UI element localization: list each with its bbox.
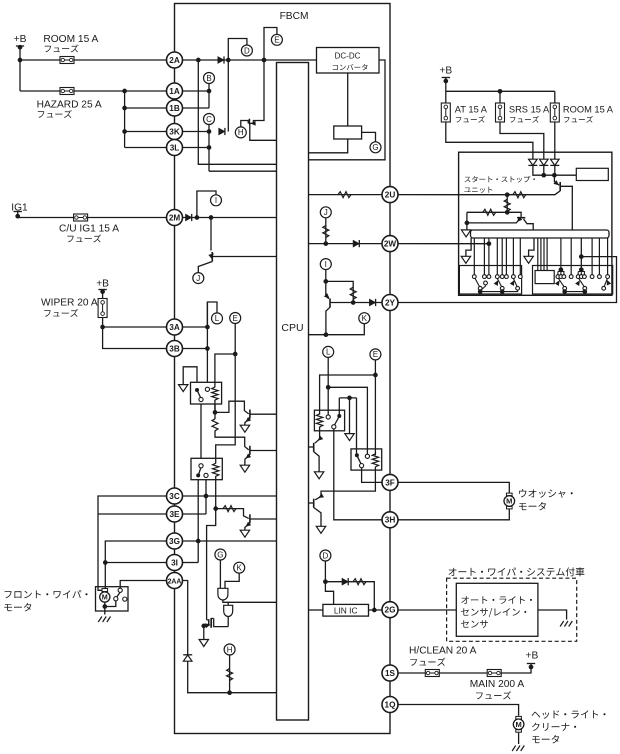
wire 3K diode to 2A bus riser [227,60,229,132]
wire label E chain to relay4 coil [374,360,376,455]
wire Q2 emitter to ground [245,455,250,466]
diode LIN branch [342,578,348,585]
ground triangle unit-mid [524,256,533,263]
relay2 box [191,458,222,479]
pin 2Y [382,295,398,311]
fuse WIPER 20A (vertical) [98,299,107,318]
svg-text:K: K [362,314,368,323]
CPU microprocessor box [277,63,309,721]
pin 3K [167,124,183,140]
auto light/rain sensor box [456,583,538,636]
wire 2M to CPU [183,217,277,219]
wire diode bus in unit [533,165,576,175]
node E (relay) [370,349,381,360]
node E [271,34,282,45]
right box switch levers [559,279,564,287]
svg-text:J: J [324,208,328,217]
svg-text:+B: +B [526,651,539,662]
diode after 2M [186,214,192,221]
wiper switch pivot contact [117,592,121,597]
wire label K to CPU [309,324,365,335]
ground hatch headlight motor [512,746,524,752]
label fuse jp (SRS) [510,116,539,123]
wire E branch to relay3 coil [320,375,376,415]
svg-text:CPU: CPU [281,322,303,334]
svg-text:2W: 2W [384,240,397,249]
wire T4 base from CPU [309,446,314,448]
unit pin riser with 2Y tap [580,238,582,270]
transistor Q3 bar [249,514,251,523]
wire C/3K/3L junction to CPU [209,170,277,172]
svg-text:+B: +B [14,34,27,45]
svg-text:3E: 3E [169,510,180,519]
label fuse jp (WIPER) [44,309,78,317]
svg-text:3L: 3L [170,143,180,152]
svg-text:3K: 3K [169,127,180,136]
left box common bus [480,290,517,291]
svg-text:2A: 2A [169,56,180,65]
wire 2M transistor collector [210,218,212,251]
relay2 armature pivot [196,473,200,477]
relay1 coil bottom to junction [214,400,216,419]
diode 2Y wire [369,299,375,306]
resistor to ground in unit [467,211,507,213]
wire 2Y transistor emitter down to K wire [326,307,330,334]
pin 3F [382,474,398,490]
wire Q1 emitter to ground [245,418,250,425]
node G [215,549,226,560]
relay3 box [314,410,344,431]
unit transistor U1 collector to connector bar [561,186,573,230]
pin 3L [167,140,183,156]
wire 2W into unit to pin [459,243,489,245]
wire label B to 1A/1B tie [208,73,210,108]
ground hatch wiper motor [98,617,110,623]
node E (3A) [230,313,241,324]
relay1 coil [214,382,216,387]
label headlight cleaner jp line1 [532,710,606,718]
FBCM body control module box [175,4,391,734]
wire H transistor collector to CPU [250,124,277,140]
fuse HAZARD 25A [60,88,74,95]
LIN IC box [323,604,369,616]
wire 3C internal [183,495,277,497]
+B terminal (MAIN) [527,663,535,665]
label front wiper motor jp line2 [4,603,31,611]
right box fan-out 2 [577,272,579,275]
label fuse jp (HAZARD) [38,110,72,118]
node G (DC-DC) [370,142,381,153]
wire 1Q to headlight cleaner motor [398,705,519,716]
wire label E (3A) down to relay coils [216,324,236,465]
wire label L chain to relay3 contact [327,357,329,417]
wire HAZARD feed to 1A [20,90,209,92]
transistor T5 bar [313,499,315,508]
resistor I-2Y branch [350,287,356,299]
pin 3G [167,533,183,549]
auto wiper system dashed box [447,578,577,641]
svg-text:3A: 3A [169,323,180,332]
node J (2M) [193,273,204,284]
wire DC-DC relay to CPU [309,139,348,153]
resistor below label J [323,226,329,238]
svg-text:G: G [372,143,378,152]
diode2 in unit [539,159,548,165]
wire MOSFET source to ground [203,626,205,640]
wire 2Y loop from unit right [398,257,617,303]
fuse AT 15A [441,103,450,122]
transistor pass element bar (H) [248,119,250,125]
label washer motor jp line2 [519,502,546,510]
wire T5 emitter to ground [314,508,321,527]
pin 1S [382,665,398,681]
relay3 armature lever [335,418,339,426]
relay4 fixed contact [365,454,369,458]
pin 3B [167,341,183,357]
wire to 3B [103,327,175,349]
wire 3B to relay 1 contact [183,348,208,350]
svg-text:SRS 15 A: SRS 15 A [509,104,550,114]
pin 3C [167,488,183,504]
wire 3G internal [183,540,277,542]
wire relay4 coil to T5 [315,467,375,500]
wire 3C to front wiper motor (left) [98,496,167,590]
svg-text:B: B [206,74,211,83]
svg-text:IG1: IG1 [11,203,28,214]
wire CPU to LIN IC [309,609,323,611]
wire Q3 collector to CPU [251,518,277,520]
front wiper motor M [102,589,108,592]
label fuse jp (H/CLEAN) [410,658,445,666]
wire relay3 coil to T4 [315,427,320,444]
wire 2Y transistor to 2Y with diode [331,302,382,304]
wire label K2 input to gate1 [225,573,239,588]
svg-text:+B: +B [439,66,452,77]
wire relay4 output to 3F [362,468,390,483]
wire label D down to LIN area [325,561,333,604]
relay1 ground hook [183,367,197,390]
wire LIN IC to 2G [369,609,391,611]
node L (3A) [212,313,223,324]
logic gate 2 [224,605,233,616]
svg-text:1S: 1S [385,669,396,678]
wire gate2 output to MOSFET [227,617,229,627]
wire motor to ground [104,606,106,615]
wire 3L [125,147,209,149]
wire E branch to relay1 coil [215,354,235,388]
relay3 armature end contact [332,425,336,429]
ground triangle relay commons [345,434,354,441]
wire 2AA internal to diode [183,581,188,655]
label sensor jp line2 [461,608,526,617]
svg-text:HAZARD 25 A: HAZARD 25 A [37,100,102,111]
wire 3E internal [183,513,207,515]
wiper switch contact 2 [114,597,118,601]
relay4 armature lever [358,457,362,464]
unit connector pins right group [538,238,608,275]
unit transistor U1 emitter [554,175,559,185]
wire H transistor feed from 2A bus [250,60,264,123]
svg-text:H: H [227,645,233,654]
svg-text:C: C [206,115,212,124]
diode on 3K wire [219,128,225,135]
wire 3K [125,131,209,133]
MOSFET output transistor [207,619,209,621]
diode1 in unit [528,159,537,165]
wire gate1 output to gate2 [223,600,228,605]
transistor T4 bar [313,443,315,452]
fuse H/CLEAN 20A [425,670,439,677]
relay1 armature output to relay2 contact [200,402,202,466]
node D [241,45,252,56]
wire ground branch relay commons [349,398,351,434]
svg-text:L: L [326,348,331,357]
ground triangle T4 [314,472,323,479]
svg-text:M: M [506,497,512,506]
node L [323,346,334,357]
wire wiper switch to ground bus [105,601,116,607]
svg-text:LIN IC: LIN IC [334,606,358,616]
unit transistor U2 base [507,212,521,217]
unit connector bar [471,230,610,238]
transistor Q2 bar [249,446,251,455]
wire gate chain to CPU [228,601,308,603]
right box contact circles [556,275,560,279]
label fuse jp (C/U IG1) [67,234,101,242]
transistor 2Y bar [329,299,331,308]
wire left bus 1A-3L [124,91,126,148]
resistor vertical in unit [506,195,508,213]
wire Q1 base path [215,401,249,414]
svg-text:ROOM 15 A: ROOM 15 A [563,104,614,114]
pin 3I [167,555,183,571]
diode on 2A wire [218,56,224,63]
resistor below label H [227,669,233,681]
unit ground hook mid [529,238,534,256]
svg-text:D: D [323,551,329,560]
relay2 coil [215,458,217,463]
ground triangle T5 [316,526,325,533]
wire 1S to +B with H/CLEAN and MAIN fuses [398,664,531,674]
wire IG1 to 2M with C/U IG1 fuse [18,217,175,218]
relay2 fixed contact [204,473,208,477]
relay2 armature lever [199,468,201,474]
relay1 fixed contact [205,387,209,391]
pin 2W [382,236,398,252]
svg-text:H/CLEAN 20 A: H/CLEAN 20 A [409,646,477,657]
node B [204,73,215,84]
pin 1Q [382,697,398,713]
node I (2M) [211,195,222,206]
svg-text:M: M [102,593,108,602]
label fuse jp (MAIN) [476,691,511,699]
node C [204,114,215,125]
ground hatch sensor [560,621,572,627]
svg-text:I: I [215,196,217,205]
wire Q1 collector to CPU [251,413,277,415]
right switch box in unit [533,266,613,295]
wire hook to label I [197,191,216,218]
relay4 armature end contact [360,464,364,468]
wire relay3 contact to 3H [334,429,390,520]
unit ground hook left [466,238,471,256]
label auto wiper system jp [449,567,585,576]
relay1 armature pivot [195,388,199,392]
transistor Q1 bar [249,410,251,419]
svg-text:E: E [274,36,279,45]
washer motor M [504,493,515,510]
svg-text:DC-DC: DC-DC [335,52,361,61]
headlight cleaner motor M [513,716,524,733]
wire sensor to ground [538,610,567,620]
svg-text:2AA: 2AA [168,578,182,585]
DC-DC converter box [317,48,380,74]
svg-text:3H: 3H [385,516,396,525]
wire DC-DC relay to label G [362,132,376,142]
wire label J to 2W junction [325,218,327,244]
left switch box in unit [459,266,521,295]
wire 3I internal to junction [183,562,199,564]
unit transistor U2 collector [524,219,534,230]
wire CPU to 2U with resistor [309,194,459,196]
wire I branch resistor to 2Y wire [326,281,353,302]
relay1 armature end contact [199,397,203,401]
wire ROOM fuse to unit diode3 [554,122,556,160]
wire IG1 terminal [14,211,22,213]
svg-text:M: M [515,720,521,729]
svg-text:C/U IG1 15 A: C/U IG1 15 A [59,224,119,235]
relay4 armature pivot [355,453,359,457]
label headlight cleaner jp line3 [532,735,559,743]
resistor between relay1 coil junction and Q2 [212,419,218,431]
node H (top) [235,127,246,138]
relay3 coil [316,414,322,427]
svg-text:H: H [238,128,244,137]
pin 2G [382,602,398,618]
pin 2U [382,187,398,203]
unit connector pins left group [474,238,520,275]
wire +B to 2A with ROOM fuse [20,59,317,61]
svg-text:1B: 1B [169,104,180,113]
wire gate chain from relay2 line - label G input [219,560,221,588]
relay2 armature output to 3G junction and 3I [197,477,199,562]
wire label C to 3K wire [208,113,210,171]
wire Q3 emitter to ground [245,523,250,530]
unit transistor U1 bar [559,182,561,191]
svg-text:2G: 2G [385,606,396,615]
wire Q3 base resistor chain [216,509,249,519]
left box lower contacts [478,286,482,290]
transistor 2M-side bar [211,252,213,262]
unit transistor U2 bar (horizontal) [517,217,525,219]
pin 3E [167,506,183,522]
svg-text:3F: 3F [385,478,395,487]
svg-text:L: L [215,314,220,323]
right box fan-out 1 [557,272,559,275]
wire 3E to left bus [98,513,167,515]
MOSFET substrate arrow and source [204,625,206,627]
label sensor jp line1 [461,596,532,604]
diode 2AA line (up) [183,655,192,661]
ground triangle Q2 [240,465,249,472]
node D (LIN) [320,550,331,561]
wire 3F to washer motor [398,482,509,492]
svg-text:3B: 3B [169,344,180,353]
ground triangle relay1 [179,385,188,392]
pin 2M [167,210,183,226]
wire relay pivots common with ground [339,397,356,399]
wire WIPER +B terminal [98,289,106,291]
diode3 in unit [550,159,559,165]
+B bus over fuses [446,90,555,92]
ground triangle unit-left [461,256,470,263]
ground triangle in unit [461,230,470,237]
node I [320,259,331,270]
resistor 2U wire [338,192,351,198]
relay2 coil chain down to MOSFET gate [207,476,216,620]
svg-text:2M: 2M [169,213,181,222]
svg-text:3C: 3C [169,492,180,501]
pin 1A [167,83,183,99]
unit block rectangle [576,168,608,180]
pin 1B [167,100,183,116]
wire hook to label D [228,39,247,61]
wire 3I to left junction [105,562,166,564]
ground triangle MOSFET [199,640,208,647]
node K [359,313,370,324]
pin 3H [382,512,398,528]
wire Q2 collector to CPU [251,450,277,452]
wire D junction diode+resistor branch [325,582,374,610]
label fuse jp (ROOM right) [564,116,593,123]
label start stop unit jp line2 [464,187,492,193]
svg-text:J: J [196,274,200,283]
relay3 armature pivot [337,414,341,418]
relay2 contact to 3C/3E [205,478,207,514]
svg-text:3G: 3G [169,537,180,546]
wire 2M transistor emitter to label J [198,262,212,273]
right box block rectangle [535,271,554,284]
wire AT fuse to unit diode1 [446,122,533,160]
relay4 box [351,449,382,470]
wire 1B [125,107,209,109]
pin 2A [167,52,183,68]
svg-text:3I: 3I [171,558,178,567]
+B terminal top-left [16,45,24,47]
left box switch levers [475,278,480,286]
svg-text:E: E [233,314,238,323]
wire 3A junction into relay 1 [183,326,208,328]
node K (gate) [234,562,245,573]
svg-text:WIPER 20 A: WIPER 20 A [41,298,98,309]
front wiper motor box [96,587,129,611]
svg-text:2Y: 2Y [385,298,396,307]
wire label I chain to 2Y transistor [326,270,329,299]
DC-DC relay element [334,126,362,139]
svg-text:1Q: 1Q [385,700,397,709]
+B terminal (AT/SRS/ROOM) [442,77,450,79]
right box lower contacts [563,286,567,290]
wiper switch contact 3 [123,597,127,601]
right box common bus [565,290,585,291]
relay4 coil [372,454,378,467]
label DC-DC converter jp [333,64,368,70]
wire hook to label E [264,28,277,61]
svg-text:MAIN 200 A: MAIN 200 A [470,679,525,690]
wire 2G to auto light sensor [398,609,456,611]
wire unit ground branch to U2 emitter [467,219,520,223]
fuse ROOM 15A [550,103,559,122]
